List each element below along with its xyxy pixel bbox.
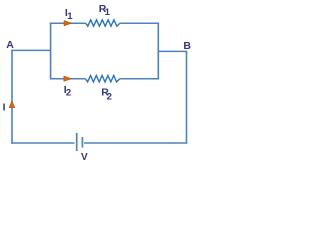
resistor R1 [86,20,120,26]
arrow I [9,101,15,108]
wire bottom branch left [50,78,86,80]
svg-text:V: V [81,152,88,162]
svg-text:1: 1 [105,7,111,18]
wire right outer vertical [186,51,188,143]
node A [6,39,14,51]
wire top branch left [50,22,86,24]
wire right branch vertical [157,23,159,80]
wire bottom left [11,142,74,144]
resistor R2 [85,76,119,82]
wire bottom right [84,142,187,144]
label I2 [64,84,71,99]
label I1 [65,7,73,22]
wire left branch vertical [50,23,52,80]
wire bottom branch right [120,78,159,80]
wire A horizontal [11,49,50,51]
arrow I1 [64,21,72,26]
svg-text:B: B [183,40,191,52]
wire left outer vertical [11,50,13,144]
svg-text:I: I [3,102,6,114]
svg-text:2: 2 [66,88,71,99]
label R1 [99,3,111,18]
wire top branch right [120,22,159,24]
battery V [77,133,83,151]
arrow I2 [64,76,72,81]
wire B horizontal [158,50,187,52]
label I [3,102,6,114]
svg-text:A: A [6,39,14,51]
svg-text:1: 1 [67,11,73,22]
svg-text:2: 2 [107,91,112,102]
label V [81,152,88,163]
label R2 [101,86,112,102]
node B [183,40,191,52]
